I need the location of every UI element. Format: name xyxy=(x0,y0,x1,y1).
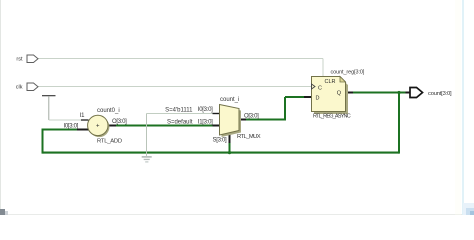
output port count[3:0] xyxy=(410,88,423,98)
label I0[3:0] (adder pin) xyxy=(64,124,79,130)
label count_i xyxy=(220,97,239,103)
svg-text:I1[3:0]: I1[3:0] xyxy=(198,119,213,125)
wire feedback right vertical xyxy=(398,93,400,154)
adder count0_i (RTL_ADD) xyxy=(88,115,108,135)
label O[3:0] (mux pin) xyxy=(244,113,259,119)
wire mux O to register D xyxy=(239,97,312,121)
svg-text:CLR: CLR xyxy=(325,79,336,85)
wire const1 to adder I1 xyxy=(49,119,89,121)
wire adder I0 input bus xyxy=(42,129,89,131)
register count_reg[3:0] (RTL_REG_ASYNC) xyxy=(312,77,346,112)
pin D label xyxy=(316,96,320,102)
label RTL_MUX xyxy=(237,134,261,140)
mux count_i (RTL_MUX) xyxy=(220,105,240,136)
wire feedback bus left vertical xyxy=(42,130,44,154)
wire adder O to mux I1 xyxy=(108,125,220,127)
wire gnd to mux I0 xyxy=(147,114,220,157)
window left border xyxy=(0,0,2,215)
svg-text:S=4'b1111: S=4'b1111 xyxy=(165,108,193,114)
svg-text:I1: I1 xyxy=(80,113,86,119)
label S=default xyxy=(167,119,193,125)
svg-text:RTL_ADD: RTL_ADD xyxy=(97,138,122,144)
svg-text:I0[3:0]: I0[3:0] xyxy=(64,124,79,130)
label S=4'b1111 xyxy=(165,108,193,114)
svg-text:count[3:0]: count[3:0] xyxy=(428,91,452,97)
label count[3:0] xyxy=(428,91,452,97)
svg-text:count_i: count_i xyxy=(220,97,239,103)
pin Q label xyxy=(337,91,342,97)
svg-text:O[3:0]: O[3:0] xyxy=(112,119,127,125)
svg-text:RTL_REG_ASYNC: RTL_REG_ASYNC xyxy=(313,113,351,119)
wire mux S input xyxy=(229,134,231,152)
junction mux S on feedback bus xyxy=(228,151,231,154)
wire rst net vertical to CLR xyxy=(322,59,324,77)
svg-text:rst: rst xyxy=(16,57,23,63)
label RTL_REG_ASYNC xyxy=(313,113,351,119)
svg-text:count0_i: count0_i xyxy=(97,108,120,114)
input port rst xyxy=(27,55,38,63)
svg-text:count_reg[3:0]: count_reg[3:0] xyxy=(331,70,365,76)
svg-text:D: D xyxy=(316,96,320,102)
ground xyxy=(142,156,152,162)
svg-text:S[3:0]: S[3:0] xyxy=(213,138,228,144)
pin C clock triangle xyxy=(312,84,316,89)
label I1 (adder pin) xyxy=(80,113,86,119)
svg-text:I0[3:0]: I0[3:0] xyxy=(198,107,213,113)
label I1[3:0] (mux pin) xyxy=(198,119,213,125)
pin C label xyxy=(318,85,322,91)
svg-text:C: C xyxy=(318,85,322,91)
pin CLR label xyxy=(325,79,336,85)
label O[3:0] (adder pin) xyxy=(112,119,127,125)
svg-text:RTL_MUX: RTL_MUX xyxy=(237,134,261,140)
svg-text:S=default: S=default xyxy=(167,119,193,125)
mux shadow xyxy=(222,107,242,138)
window bottom border xyxy=(0,214,474,216)
label count0_i xyxy=(97,108,120,114)
label I0[3:0] (mux pin) xyxy=(198,107,213,113)
svg-text:clk: clk xyxy=(16,85,23,91)
wire rst net horizontal xyxy=(38,58,323,60)
wire feedback bus bottom xyxy=(43,152,400,154)
svg-text:Q: Q xyxy=(337,91,342,97)
register shadow xyxy=(314,79,348,114)
label count_reg[3:0] xyxy=(331,70,365,76)
op-amp shadow adder xyxy=(89,117,109,137)
corner mark bottom-left xyxy=(0,209,8,215)
wire register Q to output port xyxy=(346,92,411,94)
scrollbar line right xyxy=(455,0,474,215)
svg-text:+: + xyxy=(96,123,100,129)
input port clk xyxy=(27,83,38,91)
label RTL_ADD xyxy=(97,138,122,144)
label S[3:0] xyxy=(213,138,228,144)
label clk xyxy=(16,85,23,91)
wire clk net xyxy=(38,86,312,88)
svg-text:O[3:0]: O[3:0] xyxy=(244,113,259,119)
label rst xyxy=(16,57,23,63)
power symbol constant 1 xyxy=(42,95,56,120)
junction feedback tap on Q wire xyxy=(397,91,400,94)
